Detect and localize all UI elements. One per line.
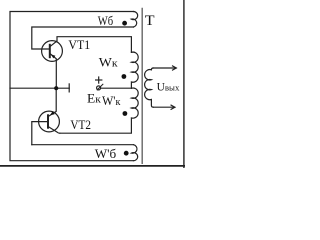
svg-text:VT2: VT2 <box>70 117 91 132</box>
svg-text:Ек: Ек <box>87 90 101 105</box>
svg-text:W'к: W'к <box>102 93 121 108</box>
svg-text:T: T <box>145 13 155 29</box>
svg-text:VT1: VT1 <box>68 37 90 52</box>
svg-text:Uвых: Uвых <box>157 82 180 94</box>
svg-text:Wб: Wб <box>98 13 114 28</box>
svg-text:W'б: W'б <box>95 146 117 161</box>
svg-text:Wк: Wк <box>99 55 118 70</box>
